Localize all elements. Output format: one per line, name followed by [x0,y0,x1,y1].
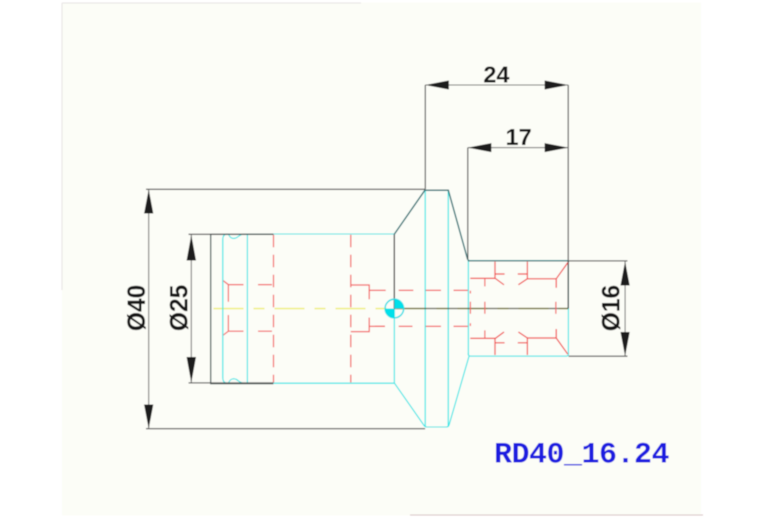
dim 24 line [425,84,568,86]
dark measuring line over centerline [394,308,568,310]
black snap vertical at quadrant [393,234,395,308]
black rear cap [211,234,274,383]
dim 17 right arrow [545,143,569,152]
cyan flange edge line right [447,190,449,426]
svg-text:Ø16: Ø16 [598,285,625,332]
red shank screw A vertical [494,262,496,355]
red left bore vertical [227,285,229,332]
dim 17 extension left [467,148,469,260]
cyan body outline (main cylinder) [223,234,394,383]
cyan flange edge line left [424,190,426,426]
sheet border left [61,3,63,290]
red hidden vertical x=273.5 [273,235,275,383]
dim D40 bottom arrow [144,405,153,429]
cyan cone/shank junction edge [467,261,469,356]
dim D16 line [624,261,626,356]
dim 24 extension left [424,85,426,189]
red end chamfer vertical [555,279,557,338]
dim D25 bottom arrow [187,357,196,383]
svg-text:Ø25: Ø25 [167,285,194,332]
red screw A tick [495,274,505,343]
red shank screw B vertical [526,262,528,355]
red end chamfer diagonal [556,263,568,355]
svg-text:24: 24 [483,61,509,87]
dim D40 extension bottom [146,428,425,430]
dim D16 bottom arrow [621,332,630,356]
red dashed vertical x=470.4 [469,291,471,326]
snap ball marker [385,299,404,318]
dim D25 extension bottom [189,382,274,384]
dim 24/17 extension right [567,85,569,261]
red left bore bottom [223,331,272,335]
dim D16 extension bottom [569,355,628,357]
red hidden vertical x=350.8 [350,235,352,383]
dim 17 left arrow [468,143,492,152]
red screw B bore line [527,279,556,338]
dim D40 extension top [146,188,425,190]
cyan flare cone top [394,190,467,259]
cyan vertical below snap ball [393,309,395,383]
dim D25 extension top [189,233,274,235]
dim D16 extension top [568,260,627,262]
cyan flare cone bottom [394,356,469,427]
red dashed vertical x=555.9 [555,302,557,314]
dim 24 left arrow [425,81,449,90]
red thread bracket bottom [351,318,385,332]
svg-text:RD40_16.24: RD40_16.24 [494,439,670,473]
yellow centerline [214,308,569,310]
svg-text:Ø40: Ø40 [124,285,151,332]
sheet border bottom [410,514,703,516]
red screw B tick [518,274,528,343]
red hidden bore lines: left bore top [223,281,272,285]
cyan cap/body junction line [246,234,248,383]
red screw A bore line [470,278,495,338]
dim D40 top arrow [144,190,153,214]
cyan shank outline [468,260,569,357]
dim D16 top arrow [621,262,630,286]
red screw A drill diagonal [495,278,504,338]
red bore dashed line lower [375,325,469,327]
red dashed vertical x=484.9 [484,278,486,338]
red thread bracket top [351,285,386,299]
black half-outline over cone (teal look) [394,190,568,261]
red screw B drill diagonal [518,279,527,338]
dim 17 line [468,147,568,149]
dim 24 right arrow [545,81,569,90]
red bore dashed line upper [399,289,469,291]
sheet border top [62,2,361,4]
svg-text:17: 17 [506,124,532,150]
dim D40 line [148,189,150,428]
dim D25 top arrow [187,235,196,261]
dim D25 line [190,234,192,383]
black shank end face upper [567,261,569,309]
